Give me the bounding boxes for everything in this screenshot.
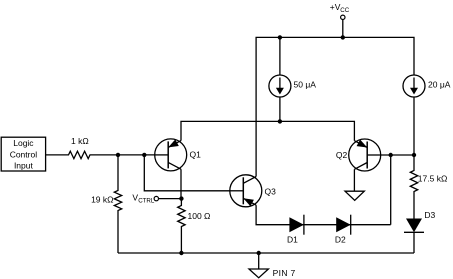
svg-text:Q1: Q1	[190, 150, 202, 160]
svg-text:D3: D3	[424, 210, 435, 220]
svg-text:PIN 7: PIN 7	[273, 268, 296, 278]
svg-text:+V: +V	[330, 2, 341, 12]
svg-text:D2: D2	[335, 235, 346, 245]
svg-text:CC: CC	[340, 7, 349, 14]
svg-text:1 kΩ: 1 kΩ	[71, 136, 89, 146]
svg-text:50 μA: 50 μA	[294, 80, 317, 90]
svg-text:Q3: Q3	[265, 187, 277, 197]
svg-text:Control: Control	[10, 149, 38, 159]
svg-text:D1: D1	[287, 235, 298, 245]
svg-text:Logic: Logic	[13, 138, 34, 148]
svg-text:20 μA: 20 μA	[428, 80, 451, 90]
svg-text:17.5 kΩ: 17.5 kΩ	[418, 174, 448, 184]
svg-text:Input: Input	[14, 160, 34, 170]
svg-text:Q2: Q2	[336, 150, 348, 160]
svg-text:19 kΩ: 19 kΩ	[91, 194, 113, 204]
svg-text:100 Ω: 100 Ω	[188, 211, 211, 221]
svg-text:CTRL: CTRL	[138, 197, 155, 204]
